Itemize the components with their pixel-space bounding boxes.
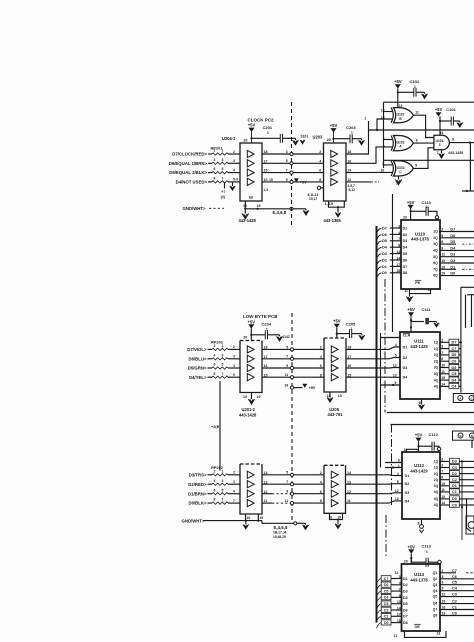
- svg-text:14: 14: [440, 131, 444, 135]
- svg-text:U204-3: U204-3: [222, 136, 236, 141]
- svg-text:19: 19: [337, 516, 341, 520]
- svg-text:13: 13: [381, 115, 385, 119]
- wire label to pin c: [391, 578, 397, 580]
- svg-text:C2: C2: [452, 478, 457, 482]
- wire to C113: [411, 561, 426, 563]
- svg-text:D4/YEL>: D4/YEL>: [189, 375, 207, 380]
- frame top line: [384, 101, 474, 103]
- svg-text:B: B: [459, 434, 461, 438]
- svg-text:7: 7: [222, 177, 224, 181]
- wire to C110: [411, 210, 426, 212]
- svg-text:Q4: Q4: [433, 589, 438, 593]
- wire pin stub: [397, 240, 401, 242]
- svg-text:4: 4: [397, 472, 399, 476]
- svg-text:7: 7: [441, 351, 443, 355]
- buffer U204 body: [240, 143, 262, 201]
- svg-text:GND/WHT>: GND/WHT>: [183, 206, 207, 211]
- svg-text:C6: C6: [384, 583, 389, 587]
- buffer U201 gate 3: [247, 364, 254, 371]
- wire from U205 to U111: [346, 347, 400, 349]
- connector circle mid: [290, 376, 293, 379]
- svg-text:3: 3: [439, 143, 441, 147]
- svg-text:C7: C7: [452, 569, 457, 573]
- frame dash-dot vertical c: [385, 515, 387, 556]
- svg-text:16: 16: [347, 364, 351, 368]
- svg-text:9,12: 9,12: [349, 188, 356, 192]
- pin stub right: [440, 385, 449, 387]
- svg-text:1Q: 1Q: [433, 230, 438, 234]
- buffer U202 gate 3: [247, 490, 254, 497]
- svg-text:3: 3: [233, 480, 235, 484]
- svg-text:20: 20: [243, 336, 247, 340]
- wire 19 to +5V: [294, 387, 303, 389]
- ground circle under U112: [420, 525, 424, 529]
- wire pin stub: [397, 272, 401, 274]
- IC U112 body: [402, 452, 440, 519]
- svg-text:D8: D8: [403, 271, 408, 275]
- svg-text:CLR: CLR: [403, 334, 411, 338]
- svg-text:U113: U113: [414, 572, 425, 577]
- svg-text:C5: C5: [452, 581, 457, 585]
- junction: [332, 138, 334, 140]
- wire xor1 upper in: [384, 111, 393, 113]
- ground S101: [300, 140, 305, 144]
- svg-text:2Q: 2Q: [433, 236, 438, 240]
- boxed label D3: [450, 458, 460, 463]
- connector inner line v: [465, 295, 467, 328]
- buffer U204 gate 2: [247, 160, 254, 167]
- svg-text:20: 20: [404, 560, 408, 564]
- svg-text:4: 4: [320, 480, 322, 484]
- svg-text:15: 15: [441, 376, 445, 380]
- wire resistor to U204: [228, 172, 240, 174]
- wire to right edge b: [459, 491, 474, 493]
- wire right partial: [444, 268, 457, 270]
- boxed label C2: [450, 477, 460, 482]
- pin stub right b: [440, 479, 450, 481]
- wire to C101: [440, 120, 451, 122]
- pin stub right b: [440, 467, 450, 469]
- svg-text:11: 11: [347, 499, 351, 503]
- wire xor1 out: [413, 115, 434, 137]
- junction pin19: [256, 208, 258, 210]
- wire to resistor b: [208, 483, 213, 485]
- svg-text:C2: C2: [452, 600, 457, 604]
- junction row D7: [460, 341, 462, 343]
- wire U202 output part: [262, 502, 272, 504]
- wire U204 output: [262, 181, 324, 183]
- wire resistor to buffer m: [228, 358, 240, 360]
- svg-text:+5V: +5V: [407, 200, 415, 205]
- svg-text:D3: D3: [382, 252, 387, 256]
- wire xor2 out: [413, 142, 434, 144]
- frame left line: [383, 102, 385, 168]
- svg-text:12: 12: [395, 489, 399, 493]
- svg-text:1: 1: [398, 464, 400, 468]
- wire under U110: [410, 289, 431, 294]
- connector circle mid: [290, 348, 293, 351]
- svg-text:16: 16: [441, 265, 445, 269]
- connector circle D: [470, 433, 474, 438]
- wire partial c: [443, 572, 456, 574]
- svg-text:14: 14: [347, 471, 351, 475]
- buffer U205 gate 1: [331, 346, 338, 353]
- enable bubble U203: [317, 186, 320, 189]
- junction: [410, 210, 412, 212]
- pin stub right c: [440, 603, 443, 605]
- svg-text:443-1429: 443-1429: [410, 344, 428, 349]
- svg-text:D0: D0: [382, 271, 387, 275]
- connector box frame top: [461, 286, 474, 288]
- bus tap D2: [377, 260, 382, 266]
- svg-text:14: 14: [441, 501, 445, 505]
- svg-text:5: 5: [222, 363, 224, 367]
- connector pin circle: [290, 152, 293, 155]
- pin stub right: [440, 367, 449, 369]
- svg-text:10: 10: [329, 516, 333, 520]
- wire label to pin: [390, 233, 397, 235]
- bubble U112: [437, 447, 440, 450]
- wire +5V to C204: [251, 334, 265, 336]
- svg-text:D5: D5: [403, 602, 408, 606]
- wire xor2 upper in: [384, 139, 393, 141]
- wire to node: [245, 208, 290, 210]
- svg-text:4: 4: [233, 168, 235, 172]
- pin stub right: [440, 360, 449, 362]
- svg-text:1: 1: [396, 182, 398, 186]
- ground at C101: [459, 121, 461, 123]
- wire xor1 lower in: [377, 119, 392, 130]
- svg-text:19: 19: [442, 612, 446, 616]
- bus tap D3: [377, 254, 382, 260]
- svg-text:5: 5: [395, 354, 397, 358]
- wire pin19 stub b: [257, 514, 259, 521]
- bracket under U203: [329, 201, 345, 207]
- wire label to pin: [390, 259, 397, 261]
- svg-text:3Q: 3Q: [434, 484, 439, 488]
- wire row3 to XOR3: [346, 171, 392, 173]
- svg-text:20: 20: [327, 138, 331, 142]
- svg-text:2Q: 2Q: [434, 478, 439, 482]
- wire to right edge c: [443, 603, 474, 605]
- boxed label C1: [450, 489, 460, 494]
- svg-text:8: 8: [415, 164, 417, 168]
- svg-text:D6/BLU>: D6/BLU>: [188, 356, 207, 361]
- pin stub right: [440, 268, 444, 270]
- pin stub right: [440, 262, 444, 264]
- wire stub y191: [462, 190, 474, 192]
- svg-text:D4: D4: [403, 376, 408, 380]
- svg-text:2: 2: [214, 344, 216, 348]
- wire U201 output: [262, 376, 324, 378]
- wire to right edge c: [443, 596, 474, 598]
- wire from U205 to U111: [346, 358, 400, 359]
- pin stub right: [440, 243, 444, 245]
- pin stub right b: [440, 460, 450, 462]
- svg-text:4: 4: [233, 364, 235, 368]
- connector dashed line top: [291, 102, 293, 225]
- buffer U206 gate 2: [331, 481, 338, 488]
- svg-text:U203: U203: [313, 135, 324, 140]
- bus tap D5: [377, 241, 382, 247]
- svg-text:+5V: +5V: [330, 123, 338, 128]
- svg-text:13: 13: [437, 632, 441, 636]
- svg-text:10: 10: [441, 482, 445, 486]
- svg-text:1Q: 1Q: [434, 466, 439, 470]
- wire row4 drop 2: [232, 182, 234, 186]
- svg-text:Q2: Q2: [433, 577, 438, 581]
- svg-text:2: 2: [233, 150, 235, 154]
- wire to connector: [459, 348, 461, 350]
- svg-text:C2: C2: [384, 608, 389, 612]
- svg-text:8: 8: [320, 373, 322, 377]
- wire pin8 down: [421, 399, 423, 405]
- boxed label D0: [450, 496, 460, 501]
- wire right partial: [444, 243, 457, 245]
- svg-text:3: 3: [233, 159, 235, 163]
- buffer U202 body: [240, 463, 262, 465]
- svg-text:7: 7: [222, 498, 224, 502]
- svg-text:C1: C1: [452, 490, 457, 494]
- wire pin10 stub b: [245, 514, 247, 521]
- svg-text:18: 18: [347, 346, 351, 350]
- svg-text:4Q: 4Q: [434, 503, 439, 507]
- svg-text:4: 4: [383, 137, 385, 141]
- pin stub right: [440, 275, 444, 277]
- wire xor3 out: [413, 148, 434, 169]
- buffer U201 gate 1: [247, 346, 254, 353]
- svg-text:4Q: 4Q: [434, 497, 439, 501]
- svg-text:7: 7: [286, 169, 288, 173]
- dash at edge: [466, 572, 474, 574]
- svg-text:10: 10: [246, 516, 250, 520]
- svg-text:6: 6: [214, 167, 216, 171]
- svg-text:C0: C0: [384, 621, 389, 625]
- ground right of node: [305, 209, 307, 211]
- buffer U205 body: [324, 337, 346, 339]
- svg-text:C0: C0: [452, 503, 457, 507]
- buffer U205 gate 4: [331, 374, 338, 381]
- svg-text:C205: C205: [346, 322, 356, 327]
- wire to resistor: [208, 172, 212, 174]
- wire to connector: [459, 360, 461, 362]
- boxed label C6: [449, 358, 459, 363]
- wire C203 to gnd: [352, 138, 361, 140]
- wire U202 output dashed: [272, 493, 290, 495]
- pin stub right c: [440, 584, 443, 586]
- svg-text:U111: U111: [414, 338, 424, 343]
- svg-text:8: 8: [319, 178, 321, 182]
- svg-text:CLOCK PC2: CLOCK PC2: [248, 117, 274, 122]
- junction U205: [336, 333, 338, 335]
- wire pin11 down: [409, 289, 411, 297]
- wire U202 output: [262, 483, 324, 485]
- svg-text:D6/EQUAL 1/BRN>: D6/EQUAL 1/BRN>: [169, 161, 208, 166]
- wire label to pin: [390, 272, 397, 274]
- wire top in 2: [385, 467, 402, 469]
- svg-text:D1/BRN>: D1/BRN>: [188, 491, 207, 496]
- bus tap C2 curve: [377, 610, 382, 616]
- ground row4: [230, 186, 235, 190]
- wire C205 gnd: [352, 333, 362, 335]
- power +5V small top: [294, 178, 299, 182]
- pin stub right b: [440, 491, 450, 493]
- svg-text:C111: C111: [422, 307, 432, 312]
- wire resistor to U204: [228, 181, 240, 183]
- svg-text:D3: D3: [405, 491, 410, 495]
- wire to resistor m: [208, 367, 213, 369]
- svg-text:C7: C7: [384, 577, 389, 581]
- wire U202 output: [262, 474, 324, 476]
- svg-text:3Q: 3Q: [434, 366, 439, 370]
- svg-text:2: 2: [441, 338, 443, 342]
- wire to right edge b: [459, 485, 474, 487]
- svg-text:RP201: RP201: [211, 145, 224, 150]
- svg-text:5: 5: [222, 167, 224, 171]
- buffer U202 gate 2: [247, 481, 254, 488]
- svg-text:D3: D3: [452, 460, 457, 464]
- svg-text:+5V: +5V: [407, 307, 415, 312]
- wire to right edge b: [459, 473, 474, 475]
- wire to C203: [334, 138, 351, 140]
- svg-text:10: 10: [381, 169, 385, 173]
- svg-text:6: 6: [452, 138, 454, 142]
- svg-text:2: 2: [320, 471, 322, 475]
- resistor RP201 element 2: [212, 162, 228, 164]
- wire pin stub c: [397, 578, 401, 580]
- wire from buffer to U112: [346, 492, 403, 495]
- wire pin stub: [397, 265, 401, 267]
- svg-text:S101: S101: [301, 135, 309, 139]
- wire under U113: [405, 631, 447, 637]
- svg-text:14: 14: [441, 382, 445, 386]
- wire to right edge: [444, 256, 474, 258]
- svg-text:8: 8: [214, 177, 216, 181]
- vertical line left of U110: [392, 194, 394, 332]
- svg-text:3Q: 3Q: [434, 372, 439, 376]
- resistor RP201 element 3: [212, 171, 228, 173]
- svg-text:Q7: Q7: [433, 608, 438, 612]
- svg-text:15: 15: [442, 600, 446, 604]
- svg-text:2Q: 2Q: [434, 353, 439, 357]
- buffer U206 body: [324, 464, 346, 466]
- connector dashed line mid: [291, 313, 293, 523]
- svg-text:U110: U110: [415, 231, 426, 236]
- vertical wire right of U112: [461, 461, 463, 540]
- wire resistor to buffer m: [228, 367, 240, 369]
- ground right of node b: [305, 523, 307, 525]
- wire label to pin: [390, 227, 397, 229]
- svg-text:9: 9: [442, 587, 444, 591]
- svg-text:8: 8: [214, 498, 216, 502]
- boxed label C7: [449, 346, 459, 351]
- svg-text:D5: D5: [382, 239, 387, 243]
- ground under xor3: [398, 176, 400, 179]
- wire label to pin c: [391, 615, 397, 617]
- junction clock: [392, 384, 394, 386]
- wire step down: [262, 521, 294, 524]
- wire row4 drop 1: [224, 182, 226, 189]
- wire U204 output: [262, 172, 324, 174]
- wire resistor to buffer b: [228, 502, 240, 504]
- svg-text:8Q: 8Q: [433, 274, 438, 278]
- wire to resistor: [208, 153, 212, 155]
- junction bracket: [337, 206, 339, 208]
- svg-text:RP201: RP201: [211, 339, 224, 344]
- svg-text:+2(E): +2(E): [211, 424, 221, 429]
- wire to right edge c: [443, 590, 474, 592]
- svg-text:6: 6: [442, 581, 444, 585]
- svg-text:+7: +7: [221, 190, 225, 194]
- buffer U202 gate 1: [247, 471, 254, 478]
- bus tap C6 curve: [377, 585, 382, 591]
- wire U201 output: [262, 358, 324, 360]
- wire top in 1: [385, 462, 402, 464]
- svg-text:19: 19: [338, 394, 342, 398]
- wire clr tap: [381, 337, 401, 339]
- frame dash-dot vertical b: [391, 425, 393, 508]
- connector inner line v2: [471, 295, 473, 327]
- pin stub right: [440, 354, 449, 356]
- buffer U206 gate 3: [331, 490, 338, 497]
- svg-text:C0: C0: [452, 612, 457, 616]
- svg-text:C112: C112: [429, 432, 439, 437]
- bubble U113: [438, 560, 441, 563]
- boxed label C4: [449, 383, 459, 388]
- svg-text:D7: D7: [403, 615, 408, 619]
- connector circle B: [458, 433, 463, 438]
- pin stub right: [440, 256, 444, 258]
- svg-text:5: 5: [442, 575, 444, 579]
- wire output down: [469, 143, 471, 191]
- wire to resistor: [208, 162, 212, 164]
- IC U113 body: [402, 564, 441, 631]
- buffer U205 gate 3: [331, 364, 338, 371]
- svg-text:+5V: +5V: [394, 79, 402, 84]
- svg-text:3: 3: [233, 355, 235, 359]
- svg-text:443-791: 443-791: [328, 412, 344, 417]
- svg-text:Q5: Q5: [433, 595, 438, 599]
- wire to resistor b: [208, 474, 213, 476]
- wire node to gnd b: [297, 522, 306, 524]
- svg-text:D6: D6: [452, 353, 457, 357]
- wire to right edge c: [443, 615, 474, 617]
- svg-text:C1: C1: [452, 606, 457, 610]
- svg-text:8: 8: [418, 521, 420, 525]
- svg-text:D2: D2: [452, 472, 457, 476]
- svg-text:D7/CLOCK/RED>: D7/CLOCK/RED>: [172, 152, 207, 157]
- ground under U111: [419, 405, 425, 410]
- wire to resistor m: [208, 376, 213, 378]
- svg-text:10: 10: [243, 395, 247, 399]
- wire xor3 upper in: [384, 160, 393, 165]
- svg-text:C6: C6: [452, 575, 457, 579]
- svg-text:7: 7: [222, 372, 224, 376]
- svg-text:D6: D6: [403, 608, 408, 612]
- svg-text:6: 6: [320, 490, 322, 494]
- svg-text:5: 5: [286, 471, 288, 475]
- svg-text:1: 1: [351, 130, 353, 134]
- resistor RP202 element 2: [212, 483, 228, 485]
- buffer U206 gate 4: [331, 500, 338, 507]
- svg-text:1: 1: [364, 117, 366, 121]
- boxed label C0: [381, 620, 391, 625]
- wire U101 output: [449, 142, 474, 144]
- svg-text:12: 12: [441, 253, 445, 257]
- wire to right edge b: [459, 479, 474, 481]
- connector pin circle: [290, 180, 293, 183]
- wire to resistor b: [208, 493, 213, 495]
